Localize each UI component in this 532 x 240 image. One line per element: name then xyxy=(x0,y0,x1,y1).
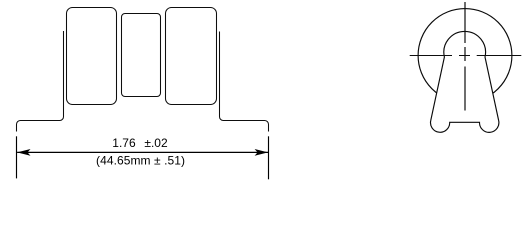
end view: vertical centerline (dash-dot) xyxy=(464,2,466,111)
front view: mounting clamp right side (vertical, shelf, hook) xyxy=(220,32,269,132)
front view: mounting clamp left side (vertical, shelf, hook) xyxy=(17,31,64,132)
svg-text:1.76: 1.76 xyxy=(112,136,136,150)
end view: capacitor body circle xyxy=(418,9,512,103)
front view: capacitor body right section xyxy=(166,8,217,105)
dimension arrowhead right xyxy=(255,149,268,156)
end view: mounting clamp profile (dome, slants, feet, notch) xyxy=(431,31,499,132)
dimension extension line left xyxy=(16,136,18,178)
dimension arrowhead left xyxy=(17,149,30,156)
front view: capacitor body middle section xyxy=(122,14,161,97)
dimension line xyxy=(17,151,268,153)
dimension extension line right xyxy=(268,136,270,179)
end view: horizontal centerline (dash-dot) xyxy=(410,55,522,57)
front view: capacitor body left section xyxy=(67,8,117,105)
svg-text:(44.65mm ± .51): (44.65mm ± .51) xyxy=(96,153,185,167)
svg-text:±.02: ±.02 xyxy=(144,136,168,150)
